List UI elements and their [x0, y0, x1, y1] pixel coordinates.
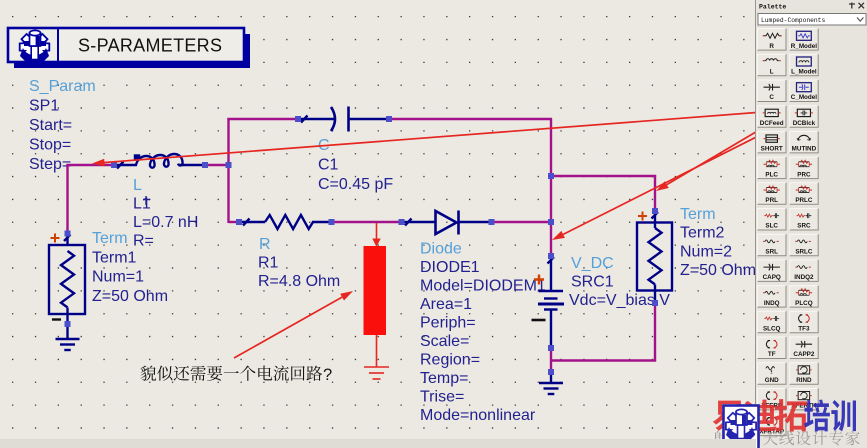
- svg-text:RIND: RIND: [796, 377, 812, 384]
- svg-text:Z=50 Ohm: Z=50 Ohm: [680, 262, 756, 279]
- palette button INDQ2: [790, 260, 819, 282]
- wire row: diode to right vertical: [492, 221, 553, 223]
- wire loop top right of C1: [389, 118, 552, 120]
- palette button MUTIND: [790, 131, 819, 153]
- dot grid background: [12, 16, 745, 429]
- svg-text:Area=1: Area=1: [420, 296, 472, 313]
- Term1 minus sign: [52, 318, 61, 320]
- svg-text:SRC: SRC: [797, 223, 811, 230]
- SRC1 minus sign: [532, 319, 546, 322]
- svg-text:Periph=: Periph=: [420, 315, 476, 332]
- svg-text:TF3: TF3: [798, 326, 810, 333]
- svg-text:PRL: PRL: [765, 197, 778, 204]
- svg-text:R=: R=: [133, 233, 154, 250]
- svg-text:Term2: Term2: [680, 225, 725, 242]
- node L1 pin 1: [111, 162, 117, 168]
- red ground below rectangle: [364, 335, 389, 379]
- svg-text:R1: R1: [258, 255, 279, 272]
- node C1 pin 2: [386, 116, 392, 122]
- palette button PRC: [790, 157, 819, 179]
- red annotation arrow: from Chinese note to red rectangle: [234, 291, 353, 358]
- svg-text:SP1: SP1: [29, 98, 59, 115]
- palette button SRC: [790, 209, 819, 231]
- wire row: corner to R1: [229, 221, 240, 223]
- svg-text:L=0.7 nH: L=0.7 nH: [133, 214, 198, 231]
- svg-text:C_Model: C_Model: [791, 94, 817, 101]
- watermark red characters: [713, 399, 807, 432]
- DC source SRC1 (V_DC): [538, 256, 564, 348]
- svg-text:C=0.45 pF: C=0.45 pF: [318, 176, 393, 193]
- palette button R_Model: [790, 29, 819, 50]
- svg-text:DCFeed: DCFeed: [760, 120, 784, 127]
- Term2 plus sign: [638, 212, 647, 221]
- palette button RIND: [790, 363, 819, 385]
- red highlight arrow into rectangle: [372, 223, 380, 247]
- svg-text:R: R: [769, 43, 774, 50]
- svg-text:SLC: SLC: [765, 223, 778, 230]
- palette button SHORT: [758, 131, 787, 153]
- svg-text:Term: Term: [680, 206, 716, 223]
- palette button PRLC: [790, 183, 819, 205]
- svg-text:CAPQ: CAPQ: [763, 274, 781, 281]
- node SRC1 bottom pin: [548, 345, 554, 351]
- svg-text:Trise=: Trise=: [420, 389, 464, 406]
- svg-text:Stop=: Stop=: [29, 137, 71, 154]
- svg-text:Mode=nonlinear: Mode=nonlinear: [420, 407, 536, 424]
- palette window buttons: [849, 3, 864, 9]
- svg-text:SLCQ: SLCQ: [763, 326, 781, 333]
- palette button SRLC: [790, 234, 819, 256]
- svg-text:Diode: Diode: [420, 241, 462, 258]
- ground below Term1: [56, 324, 80, 350]
- svg-text:CAPP2: CAPP2: [793, 351, 814, 358]
- svg-text:Z=50 Ohm: Z=50 Ohm: [92, 288, 168, 305]
- red highlight rectangle (shorted stub): [364, 246, 387, 335]
- palette button INDQ: [758, 286, 787, 308]
- node junction Term2 branch: [548, 173, 554, 179]
- wire inductor row left: [66, 164, 114, 166]
- svg-text:L: L: [770, 69, 774, 76]
- red annotation arrow: from palette DCBlock to Term2 branch: [656, 110, 793, 191]
- svg-text:L: L: [133, 177, 142, 194]
- svg-text:Lumped-Components: Lumped-Components: [761, 17, 825, 24]
- svg-text:V_DC: V_DC: [571, 255, 614, 272]
- palette button PRL: [758, 183, 787, 205]
- svg-text:R=4.8 Ohm: R=4.8 Ohm: [258, 273, 340, 290]
- svg-text:SRL: SRL: [765, 248, 778, 255]
- palette button GND: [758, 363, 787, 385]
- palette panel background: [756, 0, 867, 448]
- palette button SLCQ: [758, 311, 787, 333]
- node SRC1 top pin: [548, 253, 554, 259]
- svg-text:Term: Term: [92, 230, 128, 247]
- svg-text:SHORT: SHORT: [761, 146, 783, 153]
- Term1 plus sign: [51, 234, 60, 243]
- wire Term1 to inductor row (vertical): [66, 164, 68, 234]
- palette button C: [758, 80, 787, 102]
- diode DIODE1: [402, 211, 492, 235]
- node junction inductor row / loop-left: [226, 162, 232, 168]
- port Term2: [637, 211, 672, 303]
- svg-text:Num=2: Num=2: [680, 243, 732, 260]
- wire V_DC ground to Term2 bottom (horizontal): [550, 359, 656, 361]
- palette button CAPQ: [758, 260, 787, 282]
- node C1 pin 1: [295, 116, 301, 122]
- red annotation arrow: from palette DCFeed to inductor wire: [92, 112, 763, 166]
- node DIODE1 anode: [399, 219, 405, 225]
- svg-text:Scale=: Scale=: [420, 333, 469, 350]
- node junction diode row / SRC1: [548, 219, 554, 225]
- svg-text:Region=: Region=: [420, 352, 480, 369]
- node L1 pin 2: [202, 162, 208, 168]
- watermark gray slogan: [714, 431, 860, 446]
- palette button C_Model: [790, 80, 819, 102]
- node Term2 bottom pin: [652, 300, 658, 306]
- svg-text:Term1: Term1: [92, 249, 137, 266]
- palette button XFERTH: [790, 388, 819, 410]
- svg-text:R_Model: R_Model: [791, 43, 817, 50]
- wire row: R1 to diode: [332, 221, 402, 223]
- svg-text:Model=DIODEM1: Model=DIODEM1: [420, 278, 546, 295]
- watermark blue characters: [804, 399, 856, 431]
- svg-text:Num=1: Num=1: [92, 269, 144, 286]
- svg-text:R: R: [259, 236, 271, 253]
- palette button R: [758, 29, 787, 50]
- inductor L1: [114, 154, 205, 169]
- svg-text:S-PARAMETERS: S-PARAMETERS: [78, 36, 222, 56]
- svg-text:SRC1: SRC1: [571, 274, 614, 291]
- node Term1 top pin: [65, 231, 71, 237]
- wire loop right vertical: [550, 119, 552, 257]
- svg-text:GND: GND: [765, 377, 779, 384]
- resistor R1: [239, 215, 332, 229]
- palette button PLCQ: [790, 286, 819, 308]
- wire branch to Term2 (horizontal): [551, 175, 656, 177]
- capacitor C1: [298, 107, 389, 132]
- palette button DCBlck: [790, 106, 819, 128]
- palette button SLC: [758, 209, 787, 231]
- svg-text:C: C: [769, 94, 774, 101]
- svg-text:S_Param: S_Param: [29, 78, 96, 95]
- ground below SRC1: [539, 372, 563, 394]
- wire inductor to loop-left vertical: [205, 164, 230, 166]
- palette button SRL: [758, 234, 787, 256]
- node Term1 bottom pin: [65, 321, 71, 327]
- node Term2 top pin: [652, 208, 658, 214]
- palette button XFERP: [758, 388, 787, 410]
- palette button DCFeed: [758, 106, 787, 128]
- svg-text:Step=: Step=: [29, 156, 71, 173]
- svg-text:INDQ2: INDQ2: [794, 274, 814, 281]
- SRC1 plus sign: [534, 275, 544, 285]
- svg-text:L_Model: L_Model: [791, 69, 817, 76]
- S-PARAMETERS controller box: [8, 28, 244, 62]
- svg-text:C1: C1: [318, 157, 339, 174]
- palette dropdown Lumped-Components: [758, 14, 866, 26]
- wire loop top left of C1: [227, 118, 298, 120]
- svg-text:TF: TF: [768, 351, 776, 358]
- palette button L_Model: [790, 54, 819, 76]
- palette button L: [758, 54, 787, 76]
- port Term1: [49, 234, 85, 325]
- node R1 pin 2: [329, 219, 335, 225]
- svg-text:DCBlck: DCBlck: [793, 120, 816, 127]
- bottom window strip: [0, 439, 756, 448]
- svg-text:PLCQ: PLCQ: [795, 300, 813, 307]
- wire below V_DC vertical: [550, 348, 552, 372]
- svg-text:PRLC: PRLC: [795, 197, 813, 204]
- palette button XFRTAP: [758, 414, 787, 436]
- svg-text:Palette: Palette: [759, 4, 786, 11]
- svg-text:Start=: Start=: [29, 117, 72, 134]
- Chinese annotation text: looks like a current loop is still needed: [141, 365, 323, 380]
- S-PARAMETERS controller box shadow: [14, 34, 250, 68]
- node DIODE1 cathode: [489, 219, 495, 225]
- svg-text:Temp=: Temp=: [420, 370, 468, 387]
- palette button CAPP2: [790, 337, 819, 359]
- svg-text:?: ?: [323, 366, 332, 384]
- svg-text:MUTIND: MUTIND: [792, 146, 817, 153]
- svg-text:L1: L1: [133, 196, 151, 213]
- node ground pin below SRC1: [548, 369, 554, 375]
- S-PARAMETERS gear icon: [20, 30, 50, 61]
- node R1 pin 1: [236, 219, 242, 225]
- wire Term2 bottom vertical: [654, 303, 656, 362]
- wire branch to Term2 (vertical): [654, 175, 656, 211]
- svg-text:PRC: PRC: [797, 171, 811, 178]
- svg-text:DIODE1: DIODE1: [420, 259, 480, 276]
- wire loop left vertical: [227, 118, 229, 223]
- palette button TF3: [790, 311, 819, 333]
- svg-text:SRLC: SRLC: [795, 248, 813, 255]
- red annotation arrow: from palette DCBlock to SRC1 wire: [552, 119, 792, 240]
- svg-text:INDQ: INDQ: [764, 300, 780, 307]
- palette button TF: [758, 337, 787, 359]
- palette button PLC: [758, 157, 787, 179]
- svg-text:PLC: PLC: [765, 171, 778, 178]
- watermark gear logo: [724, 406, 759, 448]
